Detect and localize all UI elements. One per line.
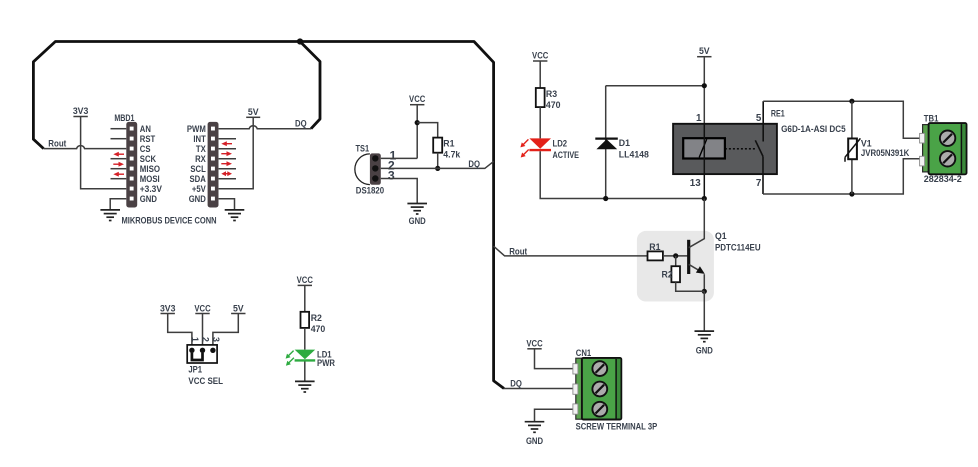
- svg-text:MISO: MISO: [140, 164, 160, 174]
- svg-text:SCREW TERMINAL 3P: SCREW TERMINAL 3P: [576, 422, 658, 432]
- terminal CN1 left strip: [576, 358, 583, 419]
- wire GND right header: [219, 199, 235, 210]
- svg-text:Q1: Q1: [715, 231, 727, 241]
- terminal TB1 main body: [929, 123, 967, 174]
- wire TS1 pin2 DQ to bus: [381, 161, 494, 168]
- resistor R1 body (Q1 base): [648, 251, 663, 260]
- power 5V symbol above relay: [697, 46, 711, 124]
- ground symbol TS1: [407, 204, 427, 215]
- LED LD1 cathode bar: [295, 359, 316, 361]
- pin squares MBD1: [130, 127, 134, 201]
- sensor TS1 DS1820 package arc: [355, 154, 370, 185]
- node junction base/R2: [673, 253, 678, 258]
- wire V1 vertical: [851, 101, 853, 194]
- LED LD2 light arrows: [522, 139, 529, 155]
- pin 3 JP1: [210, 348, 215, 353]
- node junction VCC/R1: [415, 120, 420, 125]
- svg-text:MBD1: MBD1: [114, 113, 134, 123]
- node junction V1 top: [849, 99, 854, 104]
- power VCC symbol above R3: [532, 51, 549, 88]
- wire R3 to LD2: [539, 107, 541, 138]
- LED LD1 green triangle: [295, 350, 316, 360]
- ground symbol LD1: [295, 381, 315, 392]
- relay RE1 body: [673, 124, 777, 174]
- svg-text:D1: D1: [619, 138, 630, 148]
- svg-text:3V3: 3V3: [160, 303, 176, 313]
- svg-text:Rout: Rout: [509, 246, 527, 256]
- svg-text:VCC SEL: VCC SEL: [188, 376, 223, 386]
- ground symbol CN1: [525, 422, 545, 433]
- svg-text:VCC: VCC: [297, 275, 314, 285]
- svg-text:PWM: PWM: [187, 124, 206, 134]
- svg-text:GND: GND: [526, 436, 543, 446]
- svg-text:5: 5: [756, 113, 762, 124]
- wire relay pin5 to TB1: [763, 101, 922, 138]
- wire DQ branch to PWM (thick): [300, 42, 320, 129]
- node junction 5V/D1: [702, 83, 707, 88]
- svg-text:DS1820: DS1820: [356, 185, 384, 195]
- power 3V3 symbol JP1: [160, 303, 192, 350]
- terminal TB1 dark edge strip: [961, 124, 965, 173]
- ground symbol right header: [225, 210, 245, 221]
- svg-text:SDA: SDA: [190, 174, 207, 184]
- svg-text:CN1: CN1: [576, 348, 591, 358]
- arrow right at RX: [221, 151, 232, 156]
- LED LD2 cathode bar: [529, 149, 551, 151]
- arrow right at MISO: [113, 162, 124, 167]
- svg-text:TB1: TB1: [924, 113, 939, 123]
- pin labels MBD1: [140, 124, 163, 204]
- pin 3 circle TS1: [372, 175, 378, 181]
- node junction emitter/R2: [702, 289, 707, 294]
- svg-text:JP1: JP1: [188, 364, 202, 374]
- svg-text:+5V: +5V: [192, 184, 207, 194]
- svg-text:DQ: DQ: [295, 119, 307, 129]
- wire CN1 pin3 to GND: [535, 409, 574, 421]
- svg-text:DQ: DQ: [468, 159, 480, 169]
- pin squares right header: [211, 127, 215, 201]
- wire R1 to base: [663, 255, 688, 257]
- wire R1 bottom to DQ: [437, 153, 439, 169]
- node junction V1 bottom: [849, 191, 854, 196]
- diode D1 triangle: [596, 139, 617, 149]
- arrow left at MOSI: [113, 172, 124, 177]
- pin labels right header: [187, 124, 207, 204]
- svg-text:R3: R3: [546, 89, 557, 99]
- svg-text:GND: GND: [189, 194, 206, 204]
- svg-text:GND: GND: [140, 194, 157, 204]
- power VCC symbol above R2: [297, 275, 314, 312]
- svg-text:INT: INT: [193, 134, 206, 144]
- terminal CN1 tab pin3: [573, 404, 578, 414]
- svg-text:PWR: PWR: [317, 358, 335, 368]
- svg-text:2: 2: [201, 337, 211, 342]
- resistor R3 470 body: [536, 88, 545, 107]
- node junction rail/pin13: [702, 196, 707, 201]
- relay coil box: [683, 138, 725, 158]
- svg-text:3V3: 3V3: [73, 106, 89, 116]
- svg-text:470: 470: [546, 100, 561, 110]
- terminal CN1 screw 3: [592, 402, 607, 417]
- connector right header body: [208, 122, 219, 208]
- svg-text:1: 1: [696, 113, 702, 124]
- terminal CN1 screw 2: [592, 382, 607, 397]
- terminal TB1 screw 1: [940, 131, 955, 146]
- svg-text:VCC: VCC: [526, 338, 543, 348]
- LED LD2 red triangle: [529, 138, 551, 148]
- wire base to R2: [675, 256, 677, 266]
- svg-text:R2: R2: [311, 313, 322, 323]
- wire R2 to LD1: [304, 328, 306, 350]
- arrow left at SCK: [113, 152, 124, 157]
- wire stubs MBD1: [111, 129, 127, 179]
- svg-text:GND: GND: [696, 345, 713, 355]
- svg-text:LD2: LD2: [553, 138, 568, 148]
- diode D1 cathode bar: [595, 138, 618, 140]
- power 5V symbol JP1: [213, 303, 246, 350]
- wire TS1 pin3 to GND: [381, 179, 417, 204]
- jumper JP1 body: [187, 345, 217, 363]
- svg-text:RE1: RE1: [771, 109, 785, 119]
- svg-text:4.7k: 4.7k: [443, 149, 461, 159]
- svg-text:TX: TX: [196, 144, 207, 154]
- terminal TB1 screw 2: [940, 151, 955, 166]
- wire D1 top to 5V: [606, 85, 705, 87]
- svg-text:5V: 5V: [233, 303, 245, 313]
- relay switch pin5 stub: [762, 101, 764, 141]
- transistor Q1 shaded box: [637, 231, 714, 302]
- transistor Q1 base bar: [687, 240, 690, 274]
- relay switch pin7 line: [762, 156, 764, 194]
- svg-text:VCC: VCC: [532, 51, 549, 61]
- svg-text:G6D-1A-ASI DC5: G6D-1A-ASI DC5: [781, 124, 846, 134]
- svg-text:LL4148: LL4148: [619, 149, 649, 159]
- sensor TS1 header strip: [370, 153, 381, 184]
- terminal TB1 tab pin2: [920, 156, 925, 166]
- power VCC symbol CN1: [526, 338, 573, 368]
- ground symbol Q1: [695, 331, 715, 342]
- wire GND MBD1: [110, 199, 126, 210]
- relay coil diagonal: [699, 139, 707, 157]
- svg-text:R1: R1: [649, 242, 660, 252]
- svg-text:CS: CS: [140, 144, 151, 154]
- wire DQ to PWM pin with hump over 5V: [219, 126, 311, 129]
- svg-text:+3.3V: +3.3V: [140, 184, 163, 194]
- svg-text:GND: GND: [409, 216, 426, 226]
- connector MBD1 left header body: [126, 122, 137, 208]
- svg-text:RST: RST: [140, 134, 156, 144]
- svg-text:13: 13: [690, 178, 701, 189]
- pin 1 circle TS1: [372, 155, 378, 161]
- svg-text:R2: R2: [662, 269, 673, 279]
- wire DQ to CN1: [504, 388, 573, 390]
- arrow right at SCL: [221, 161, 232, 166]
- power 5V symbol above right header: [219, 107, 261, 189]
- power VCC symbol JP1: [194, 303, 211, 350]
- pin 2 circle TS1: [372, 165, 378, 171]
- terminal CN1 main body: [582, 358, 621, 420]
- svg-text:R1: R1: [443, 138, 454, 148]
- wire relay pin1 to pin13 through coil: [703, 124, 705, 199]
- arrow double at SDA: [221, 171, 232, 176]
- terminal TB1 tab pin1: [920, 133, 925, 143]
- svg-text:VCC: VCC: [409, 94, 426, 104]
- node junction top rail: [297, 38, 303, 44]
- svg-text:MOSI: MOSI: [140, 174, 160, 184]
- wire VCC to R1 top: [417, 123, 438, 138]
- terminal CN1 dark edge strip: [616, 359, 620, 419]
- wire relay pin7 to TB1: [763, 159, 922, 194]
- svg-text:SCK: SCK: [140, 154, 157, 164]
- wire LD1 to GND: [304, 362, 306, 382]
- relay switch lever: [755, 140, 763, 156]
- node junction D1 bottom: [603, 196, 608, 201]
- svg-text:Rout: Rout: [48, 139, 66, 149]
- svg-text:5V: 5V: [248, 107, 260, 117]
- ground symbol MBD1: [100, 210, 120, 221]
- svg-text:TS1: TS1: [356, 144, 370, 154]
- arrow left at TX: [221, 141, 232, 146]
- wire D1 vertical: [605, 86, 607, 199]
- terminal CN1 screw 1: [592, 361, 607, 376]
- varistor V1 body: [848, 139, 857, 160]
- wire emitter to GND: [703, 291, 705, 330]
- svg-text:5V: 5V: [699, 46, 711, 56]
- resistor R2 body (Q1): [671, 266, 680, 282]
- relay actuator dotted line: [725, 148, 757, 150]
- resistor R2 470 body: [301, 312, 310, 328]
- terminal TB1 left strip: [923, 125, 930, 172]
- svg-text:3: 3: [211, 337, 221, 342]
- svg-text:VCC: VCC: [194, 303, 211, 313]
- svg-text:3: 3: [388, 169, 395, 183]
- svg-text:DQ: DQ: [510, 378, 522, 388]
- jumper shunt 1-2 JP1: [192, 353, 203, 360]
- svg-text:SCL: SCL: [190, 164, 206, 174]
- svg-text:ACTIVE: ACTIVE: [553, 150, 580, 160]
- pin 2 JP1: [200, 348, 205, 353]
- wire emitter down: [703, 274, 705, 291]
- wire Rout to CS pin with hump over 3V3: [44, 146, 127, 149]
- terminal CN1 tab pin1: [573, 364, 578, 374]
- node junction R1/DQ: [435, 166, 440, 171]
- power VCC symbol above R1: [409, 94, 426, 158]
- svg-text:AN: AN: [140, 124, 151, 134]
- wire LD2 to bottom rail: [540, 151, 704, 198]
- svg-text:MIKROBUS DEVICE CONN: MIKROBUS DEVICE CONN: [122, 216, 217, 226]
- svg-text:7: 7: [756, 178, 762, 189]
- svg-text:470: 470: [311, 324, 326, 334]
- wire R2 to emitter: [676, 282, 705, 291]
- svg-text:RX: RX: [195, 154, 206, 164]
- svg-text:282834-2: 282834-2: [924, 174, 962, 184]
- transistor Q1 collector: [689, 199, 705, 248]
- pin 1 JP1: [189, 348, 194, 353]
- LED LD1 light arrows: [287, 351, 294, 364]
- wire TS1 pin1 to VCC: [381, 157, 417, 159]
- varistor V1 diagonal: [845, 138, 860, 161]
- transistor Q1 emitter with arrow: [689, 264, 703, 272]
- svg-text:1: 1: [190, 337, 200, 342]
- wire stubs right header: [219, 139, 236, 179]
- wire Rout/DQ main loop (thick): [33, 42, 504, 389]
- svg-text:JVR05N391K: JVR05N391K: [861, 148, 910, 158]
- svg-text:PDTC114EU: PDTC114EU: [715, 243, 761, 253]
- power 3V3 symbol left: [73, 106, 126, 189]
- wire Rout tap from bus: [494, 246, 648, 256]
- resistor R1 4.7k body: [433, 138, 442, 153]
- terminal CN1 tab pin2: [573, 384, 578, 394]
